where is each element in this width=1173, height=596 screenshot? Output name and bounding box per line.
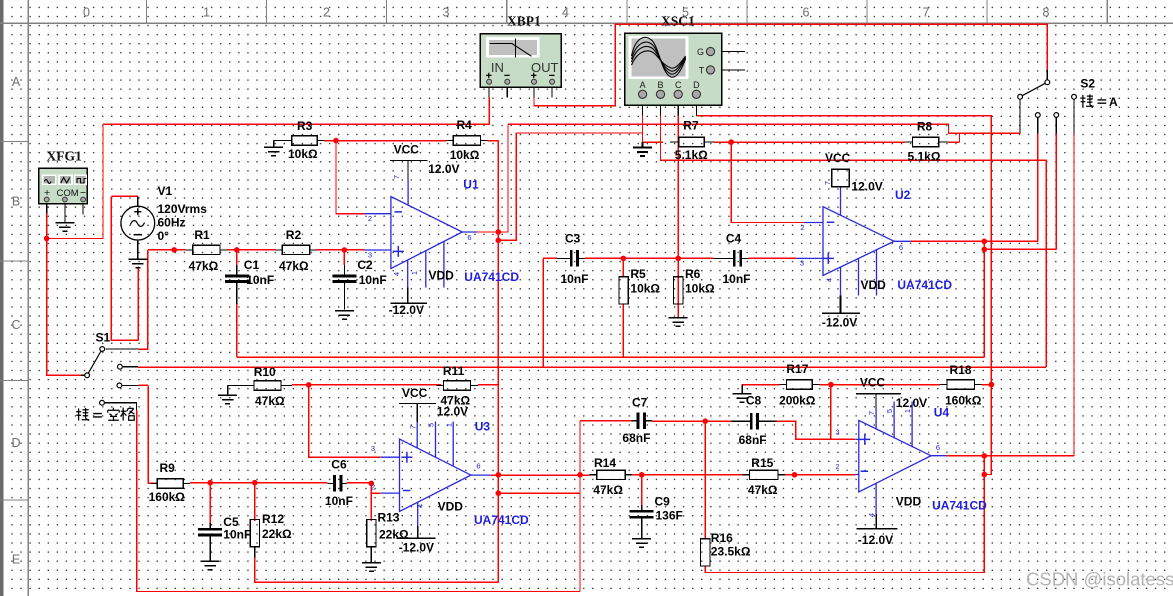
svg-text:4: 4 (867, 513, 876, 517)
svg-text:A: A (1109, 95, 1118, 109)
svg-text:1: 1 (903, 409, 912, 413)
svg-text:4: 4 (416, 504, 425, 508)
svg-text:6: 6 (467, 233, 471, 242)
svg-text:7: 7 (923, 6, 930, 20)
svg-text:2: 2 (368, 214, 372, 223)
svg-text:7: 7 (867, 411, 876, 415)
svg-text:VDD: VDD (896, 495, 922, 509)
svg-text:G: G (697, 47, 704, 57)
svg-text:120Vrms: 120Vrms (158, 202, 208, 216)
svg-text:2: 2 (323, 6, 330, 20)
svg-text:47kΩ: 47kΩ (593, 483, 623, 497)
svg-text:136F: 136F (656, 509, 683, 523)
svg-text:7: 7 (409, 425, 418, 429)
svg-text:COM: COM (57, 188, 79, 199)
svg-text:XFG1: XFG1 (47, 149, 82, 164)
svg-text:B: B (657, 80, 663, 90)
svg-text:C7: C7 (632, 396, 648, 410)
svg-text:4: 4 (562, 6, 569, 20)
svg-text:2: 2 (371, 483, 375, 492)
svg-text:XSC1: XSC1 (661, 14, 695, 29)
svg-text:C: C (11, 318, 20, 332)
svg-text:D: D (693, 80, 700, 90)
svg-text:R16: R16 (711, 531, 733, 545)
svg-text:7: 7 (392, 175, 401, 179)
svg-text:R7: R7 (683, 119, 699, 133)
svg-text:C4: C4 (726, 232, 742, 246)
svg-text:68nF: 68nF (622, 431, 650, 445)
svg-text:R2: R2 (286, 228, 302, 242)
svg-text:IN: IN (491, 60, 504, 75)
svg-text:C6: C6 (331, 458, 347, 472)
svg-text:10kΩ: 10kΩ (630, 282, 660, 296)
svg-text:60Hz: 60Hz (158, 216, 186, 230)
svg-text:6: 6 (899, 243, 903, 252)
svg-text:U4: U4 (934, 406, 950, 420)
svg-text:R18: R18 (950, 363, 972, 377)
svg-text:3: 3 (368, 251, 372, 260)
svg-text:VCC: VCC (394, 143, 420, 157)
svg-text:5.1kΩ: 5.1kΩ (908, 150, 941, 164)
svg-text:5: 5 (427, 423, 436, 427)
svg-text:10kΩ: 10kΩ (685, 282, 715, 296)
svg-text:UA741CD: UA741CD (897, 278, 952, 292)
svg-text:47kΩ: 47kΩ (279, 259, 309, 273)
svg-text:R17: R17 (786, 362, 808, 376)
svg-text:6: 6 (476, 462, 480, 471)
svg-text:A: A (640, 80, 646, 90)
svg-text:XBP1: XBP1 (507, 14, 541, 29)
svg-text:-12.0V: -12.0V (389, 303, 424, 317)
svg-text:23.5kΩ: 23.5kΩ (711, 545, 751, 559)
svg-text:10nF: 10nF (359, 273, 387, 287)
svg-text:VDD: VDD (429, 269, 455, 283)
svg-text:C3: C3 (565, 232, 581, 246)
svg-text:VCC: VCC (825, 151, 851, 165)
svg-text:47kΩ: 47kΩ (748, 483, 778, 497)
svg-text:C9: C9 (655, 495, 671, 509)
svg-text:3: 3 (800, 259, 804, 268)
svg-text:10nF: 10nF (723, 272, 751, 286)
svg-text:S2: S2 (1080, 77, 1095, 91)
svg-text:160kΩ: 160kΩ (149, 490, 186, 504)
svg-text:R11: R11 (443, 364, 465, 378)
svg-text:12.0V: 12.0V (428, 162, 459, 176)
svg-text:B: B (12, 195, 20, 209)
svg-text:R5: R5 (630, 267, 646, 281)
svg-text:R15: R15 (751, 456, 773, 470)
svg-text:C8: C8 (746, 394, 762, 408)
svg-text:200kΩ: 200kΩ (779, 394, 816, 408)
svg-text:VDD: VDD (438, 500, 464, 514)
svg-text:V1: V1 (158, 184, 173, 198)
svg-text:47kΩ: 47kΩ (189, 259, 219, 273)
svg-text:3: 3 (371, 444, 375, 453)
svg-text:R6: R6 (685, 267, 701, 281)
svg-text:R13: R13 (378, 511, 400, 525)
svg-text:VDD: VDD (861, 278, 887, 292)
svg-text:-12.0V: -12.0V (822, 316, 857, 330)
svg-text:0°: 0° (158, 229, 170, 243)
svg-text:47kΩ: 47kΩ (255, 394, 285, 408)
svg-text:5.1kΩ: 5.1kΩ (675, 148, 708, 162)
svg-text:160kΩ: 160kΩ (945, 394, 982, 408)
svg-text:8: 8 (1043, 6, 1050, 20)
svg-text:7: 7 (823, 181, 832, 185)
svg-text:-12.0V: -12.0V (858, 533, 893, 547)
svg-text:10nF: 10nF (223, 528, 251, 542)
svg-text:22kΩ: 22kΩ (262, 527, 292, 541)
svg-text:10nF: 10nF (325, 494, 353, 508)
svg-text:C: C (675, 80, 682, 90)
svg-text:1: 1 (445, 423, 454, 427)
svg-text:R8: R8 (917, 120, 933, 134)
svg-text:10kΩ: 10kΩ (288, 147, 318, 161)
svg-text:3: 3 (835, 428, 839, 437)
svg-text:1: 1 (410, 271, 419, 275)
svg-text:UA741CD: UA741CD (932, 499, 987, 513)
svg-text:OUT: OUT (531, 60, 559, 75)
svg-text:VCC: VCC (402, 386, 428, 400)
svg-text:2: 2 (835, 462, 839, 471)
svg-text:1: 1 (203, 6, 210, 20)
svg-text:10kΩ: 10kΩ (450, 148, 480, 162)
svg-text:R4: R4 (457, 118, 473, 132)
svg-text:22kΩ: 22kΩ (379, 528, 409, 542)
svg-text:UA741CD: UA741CD (464, 270, 519, 284)
svg-text:U1: U1 (463, 178, 479, 192)
svg-text:C2: C2 (357, 258, 373, 272)
svg-text:R1: R1 (194, 228, 210, 242)
svg-text:-12.0V: -12.0V (399, 541, 434, 555)
svg-text:R10: R10 (254, 365, 276, 379)
svg-text:C1: C1 (244, 258, 260, 272)
svg-text:R9: R9 (160, 461, 176, 475)
svg-text:D: D (11, 436, 20, 450)
svg-text:6: 6 (936, 443, 940, 452)
svg-text:CSDN @isolatesss: CSDN @isolatesss (1026, 569, 1173, 590)
svg-text:5: 5 (885, 409, 894, 413)
svg-text:2: 2 (800, 223, 804, 232)
svg-text:68nF: 68nF (739, 433, 767, 447)
svg-text:R3: R3 (297, 119, 313, 133)
svg-text:12.0V: 12.0V (851, 180, 882, 194)
svg-text:6: 6 (803, 6, 810, 20)
svg-text:T: T (699, 65, 705, 75)
svg-text:A: A (12, 75, 21, 89)
svg-text:0: 0 (83, 6, 90, 20)
svg-text:E: E (12, 553, 20, 567)
svg-text:S1: S1 (96, 331, 111, 345)
svg-text:10nF: 10nF (561, 272, 589, 286)
svg-text:10nF: 10nF (246, 273, 274, 287)
svg-text:R12: R12 (262, 512, 284, 526)
svg-text:3: 3 (443, 6, 450, 20)
svg-text:4: 4 (825, 278, 834, 282)
svg-text:12.0V: 12.0V (896, 396, 927, 410)
svg-text:VCC: VCC (860, 376, 886, 390)
svg-text:4: 4 (392, 272, 401, 276)
svg-text:UA741CD: UA741CD (474, 513, 529, 527)
svg-text:12.0V: 12.0V (437, 405, 468, 419)
svg-text:R14: R14 (594, 456, 616, 470)
svg-text:U3: U3 (475, 420, 491, 434)
svg-text:U2: U2 (895, 188, 911, 202)
